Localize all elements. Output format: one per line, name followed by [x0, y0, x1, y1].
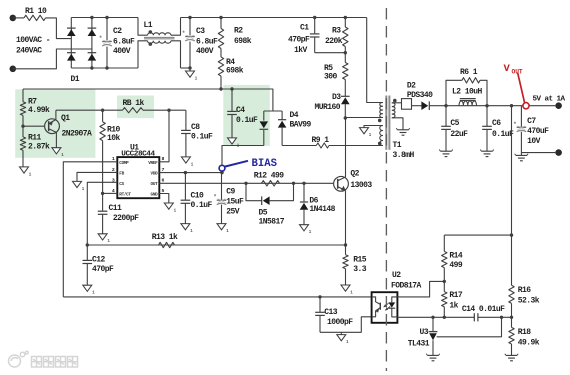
svg-text:22uF: 22uF [450, 130, 468, 139]
junction [344, 16, 347, 19]
optocoupler U2 box [372, 271, 422, 323]
diode D4b [278, 111, 287, 146]
wire FB pin2 to ground [77, 172, 117, 181]
annotation VOUT [504, 63, 530, 109]
junction [219, 16, 222, 19]
diode D1b [67, 53, 76, 61]
svg-text:C1: C1 [300, 23, 309, 32]
label D1 [71, 75, 80, 84]
svg-text:1N4148: 1N4148 [309, 205, 335, 214]
transformer T1 primary winding [380, 103, 383, 118]
svg-text:3.3: 3.3 [353, 265, 367, 274]
svg-text:D3: D3 [332, 93, 341, 102]
wire GND pin5 [159, 194, 169, 204]
svg-text:RT/CT: RT/CT [119, 193, 131, 198]
capacitor C5 [441, 106, 468, 152]
wire CS rail [87, 244, 345, 246]
resistor R5 [324, 53, 348, 97]
svg-text:VREF: VREF [148, 161, 158, 166]
junction [431, 316, 434, 319]
wire primary bottom [345, 117, 383, 119]
capacitor C10 [181, 173, 213, 224]
junction [105, 16, 108, 19]
diode D6 [300, 183, 336, 224]
capacitor C3 [182, 18, 218, 69]
diode D4a [260, 111, 269, 146]
svg-text:D4: D4 [290, 111, 299, 120]
svg-text:L1: L1 [144, 21, 153, 30]
resistor R17 [442, 281, 463, 317]
junction [101, 109, 104, 112]
junction [444, 104, 447, 107]
junction [443, 316, 446, 319]
svg-text:3.8mH: 3.8mH [393, 151, 415, 160]
diode D1c [88, 28, 97, 36]
wire top rail mid [181, 17, 367, 19]
wire [220, 49, 222, 58]
junction [292, 182, 295, 185]
svg-text:R12 499: R12 499 [254, 171, 285, 180]
wire Q1 base [23, 125, 45, 127]
wire D4 bracket [264, 110, 282, 112]
capacitor C12 [83, 245, 115, 285]
junction [302, 182, 305, 185]
junction [188, 16, 191, 19]
svg-text:2.87k: 2.87k [28, 143, 50, 152]
svg-text:V: V [504, 63, 511, 75]
wire feedforward rail [23, 89, 273, 111]
svg-text:10k: 10k [107, 134, 121, 143]
highlight box C4 [223, 85, 269, 146]
svg-text:220k: 220k [325, 37, 343, 46]
ground primary C13 [337, 332, 349, 345]
junction [219, 87, 222, 90]
junction [21, 125, 24, 128]
svg-text:300: 300 [324, 73, 338, 82]
junction [184, 171, 187, 174]
label T1 [393, 141, 415, 160]
svg-text:13003: 13003 [350, 181, 372, 190]
svg-text:C13: C13 [324, 308, 338, 317]
junction [86, 243, 89, 246]
label 100VAC-240VAC [16, 36, 50, 55]
svg-text:1N5817: 1N5817 [259, 217, 285, 226]
junction [90, 16, 93, 19]
resistor RB [123, 99, 145, 113]
svg-text:BAV99: BAV99 [290, 120, 312, 129]
wire secondary bottom [392, 118, 403, 130]
diode D2 [407, 82, 433, 110]
svg-text:*: * [182, 30, 186, 37]
capacitor C11 [98, 193, 139, 233]
svg-text:49.9k: 49.9k [518, 338, 540, 347]
junction [90, 66, 93, 69]
svg-text:D1: D1 [71, 75, 80, 84]
wire COMP pin1 [63, 162, 117, 297]
svg-text:T1: T1 [393, 141, 402, 150]
wire VREF pin8 [159, 110, 169, 162]
inductor L2 [452, 88, 483, 106]
svg-text:10V: 10V [527, 137, 541, 146]
svg-text:FOD817A: FOD817A [391, 282, 422, 291]
svg-text:470pF: 470pF [92, 265, 114, 274]
svg-text:2N2907A: 2N2907A [62, 129, 93, 138]
ground secondary U3 [426, 354, 439, 361]
ground secondary C6 [480, 150, 493, 157]
svg-text:1000pF: 1000pF [327, 318, 353, 327]
svg-text:400V: 400V [196, 47, 214, 56]
capacitor C8 [181, 110, 213, 157]
wire cathode rail [397, 316, 474, 318]
wire top rail left [71, 17, 138, 19]
svg-text:R2: R2 [234, 27, 243, 36]
svg-text:C10: C10 [191, 191, 205, 200]
svg-text:698k: 698k [234, 37, 252, 46]
wire VDD pin7 rail [159, 172, 222, 174]
U2 LED [388, 297, 397, 317]
junction [101, 192, 104, 195]
wire aux bottom [329, 145, 383, 147]
choke L1 phase dots [149, 30, 153, 46]
watermark logo [9, 351, 78, 367]
capacitor C4 [227, 89, 258, 138]
ground primary aux [360, 128, 372, 138]
svg-text:240VAC: 240VAC [16, 46, 42, 55]
terminal AC neutral [10, 66, 17, 73]
ground primary D6 [300, 225, 312, 235]
junction [510, 233, 513, 236]
wire Q1 collector to ground [52, 132, 64, 158]
svg-text:C6: C6 [492, 119, 501, 128]
svg-text:Q1: Q1 [61, 114, 70, 123]
svg-text:L2 10uH: L2 10uH [452, 88, 483, 97]
svg-text:U3: U3 [420, 328, 429, 337]
resistor R18 [509, 317, 540, 355]
svg-text:GND: GND [151, 193, 159, 198]
svg-text:OUT: OUT [151, 182, 159, 187]
svg-text:FB: FB [119, 172, 124, 177]
wire COMP rail [63, 296, 371, 298]
capacitor C7 [513, 106, 549, 153]
svg-text:52.3k: 52.3k [518, 296, 540, 305]
svg-text:0.1uF: 0.1uF [492, 130, 514, 139]
ground primary R11 [20, 167, 32, 177]
U2 light arrows [383, 303, 390, 310]
svg-text:R13 1k: R13 1k [152, 233, 178, 242]
ground secondary C7 [515, 153, 528, 161]
svg-text:C9: C9 [226, 188, 235, 197]
wire 5V sense column [511, 106, 513, 286]
diode D1d [88, 53, 97, 61]
svg-text:C12: C12 [92, 256, 106, 265]
resistor R10 [100, 110, 121, 193]
resistor R7 [20, 89, 50, 126]
junction [105, 66, 108, 69]
terminal return [555, 149, 562, 156]
svg-text:499: 499 [449, 261, 463, 270]
wire return [521, 152, 555, 154]
svg-text:R17: R17 [449, 291, 463, 300]
wire secondary top [392, 102, 402, 104]
transformer T1 core [386, 96, 389, 150]
junction [510, 316, 513, 319]
choke L1 core [144, 37, 175, 38]
svg-text:C7: C7 [527, 117, 536, 126]
ground primary C9 [217, 224, 229, 234]
ground primary FB [73, 181, 85, 191]
capacitor C9 [213, 173, 244, 224]
ground primary C11 [98, 234, 110, 244]
junction [485, 104, 488, 107]
T1 secondary phase dot [393, 99, 397, 103]
capacitor C13 [315, 297, 353, 332]
svg-text:5: 5 [162, 188, 165, 194]
ground secondary winding [396, 128, 409, 135]
shunt regulator U3 TL431 [408, 317, 438, 355]
wire primary top [367, 18, 383, 103]
resistor R16 [509, 285, 540, 317]
wire [13, 17, 24, 19]
wire [143, 109, 186, 111]
junction [220, 171, 223, 174]
svg-text:1k: 1k [449, 301, 458, 310]
svg-text:C5: C5 [450, 119, 459, 128]
resistor R14 [442, 235, 463, 281]
svg-text:D2: D2 [407, 82, 416, 91]
wire RB rail [56, 109, 123, 111]
ground primary C8 [181, 157, 193, 167]
svg-text:470uF: 470uF [527, 127, 549, 136]
bridge D1 right column wire [91, 18, 93, 69]
resistor R4 [218, 57, 243, 76]
label L1 [144, 21, 153, 30]
U1 pin names [119, 161, 158, 198]
junction [244, 182, 247, 185]
T1 primary phase dot [378, 119, 382, 123]
wire aux top to ground [364, 126, 383, 128]
ground secondary R18 [505, 354, 518, 361]
svg-text:R14: R14 [449, 251, 463, 260]
label D4 [290, 111, 312, 130]
capacitor C14 [462, 305, 505, 321]
junction [344, 51, 347, 54]
wire Q2 collector [345, 118, 347, 177]
wire [478, 316, 512, 318]
resistor R2 [218, 18, 251, 49]
svg-text:R18: R18 [518, 328, 532, 337]
choke L1 top winding [138, 18, 181, 36]
svg-text:D5: D5 [259, 208, 268, 217]
diode D5 loop [246, 183, 294, 200]
junction [188, 66, 191, 69]
wire OUT rail [159, 182, 333, 184]
svg-text:C4: C4 [236, 106, 245, 115]
junction [344, 116, 347, 119]
capacitor C6 [482, 106, 514, 152]
highlight box slope-comp network [15, 89, 95, 158]
U1 pin numbers [112, 156, 165, 194]
transistor Q2 [334, 170, 373, 192]
svg-text:R16: R16 [518, 286, 532, 295]
U2 phototransistor [372, 297, 381, 317]
resistor R12 [254, 171, 285, 186]
ground primary U1 [164, 203, 176, 213]
svg-text:470pF: 470pF [288, 36, 310, 45]
label 5V at 1A [533, 95, 566, 103]
capacitor C1 [288, 18, 320, 56]
ground primary below C3 [186, 68, 198, 81]
svg-text:COMP: COMP [119, 161, 129, 166]
svg-text:R1 10: R1 10 [25, 7, 47, 16]
svg-text:5V at 1A: 5V at 1A [533, 95, 566, 103]
IC U1 UCC28C44 box [117, 144, 159, 199]
svg-text:RB 1k: RB 1k [123, 99, 145, 108]
svg-text:1kV: 1kV [294, 46, 308, 55]
svg-text:R6 1: R6 1 [460, 68, 478, 77]
svg-text:R3: R3 [332, 27, 341, 36]
svg-text:C3: C3 [196, 27, 205, 36]
junction [500, 316, 503, 319]
resistor R13 [152, 233, 178, 248]
svg-text:*: * [99, 35, 103, 42]
transformer T1 secondary winding [392, 103, 395, 118]
svg-text:CS: CS [119, 182, 124, 187]
terminal VOUT [555, 102, 562, 109]
wire opto emitter return [320, 317, 372, 333]
wire R14 top [444, 234, 511, 236]
wire Q2 emitter [345, 190, 347, 245]
svg-text:PDS340: PDS340 [407, 91, 433, 100]
resistor R3 [325, 18, 348, 53]
transformer T1 aux winding [380, 126, 383, 146]
svg-text:698k: 698k [226, 67, 244, 76]
T1 aux phase dot [378, 142, 382, 146]
svg-text:0.1uF: 0.1uF [236, 116, 258, 125]
resistor R1 [24, 7, 47, 21]
svg-text:*: * [213, 194, 217, 201]
svg-text:UCC28C44: UCC28C44 [121, 151, 155, 159]
resistor R11 [20, 126, 50, 167]
wire RT/CT pin4 [103, 192, 118, 194]
svg-text:R11: R11 [28, 134, 42, 143]
resistor R6 [446, 68, 487, 106]
ground primary R15 [341, 285, 353, 295]
wire [46, 18, 71, 39]
svg-text:MUR160: MUR160 [315, 103, 341, 112]
svg-text:15uF: 15uF [226, 198, 244, 207]
ground primary C10 [181, 224, 193, 234]
highlight box RB [117, 96, 154, 119]
svg-text:OUT: OUT [512, 68, 523, 75]
svg-text:6.8uF: 6.8uF [113, 37, 135, 46]
svg-text:0.1uF: 0.1uF [191, 201, 213, 210]
terminal AC line [10, 15, 17, 22]
diode D3 [315, 93, 350, 118]
svg-text:6.8uF: 6.8uF [196, 37, 218, 46]
wire [220, 76, 222, 89]
svg-text:TL431: TL431 [408, 340, 430, 349]
svg-text:0.1uF: 0.1uF [191, 133, 213, 142]
wire [412, 105, 422, 107]
ground primary C4 [228, 138, 240, 148]
svg-text:C2: C2 [113, 27, 122, 36]
junction [510, 104, 513, 107]
svg-text:C14 0.01uF: C14 0.01uF [462, 305, 505, 314]
junction [167, 109, 170, 112]
wire [315, 52, 346, 54]
svg-text:R15: R15 [353, 256, 367, 265]
wire [13, 49, 92, 69]
svg-text:VDD: VDD [151, 172, 159, 177]
svg-text:6: 6 [162, 177, 165, 183]
transistor Q1 [45, 114, 92, 138]
svg-text:2200pF: 2200pF [113, 214, 139, 223]
wire bottom rail left [71, 67, 138, 69]
choke L1 bottom winding [138, 41, 181, 68]
wire opto anode [397, 281, 444, 297]
svg-text:400V: 400V [113, 47, 131, 56]
svg-text:4.99k: 4.99k [28, 106, 50, 115]
snubber bead box [402, 99, 412, 110]
svg-text:C11: C11 [109, 204, 123, 213]
wire output rail [429, 105, 555, 107]
wire CS pin3 [87, 182, 117, 245]
wire BIAS [222, 146, 264, 173]
svg-text:25V: 25V [226, 207, 240, 216]
junction [313, 16, 316, 19]
ground secondary C5 [439, 150, 452, 157]
resistor R9 [282, 136, 329, 148]
svg-text:C8: C8 [191, 123, 200, 132]
bridge D1 left column wire [70, 18, 72, 69]
svg-text:*: * [513, 121, 517, 128]
wire bottom rail right [181, 67, 191, 69]
svg-text:U2: U2 [392, 271, 401, 280]
svg-text:BIAS: BIAS [252, 158, 278, 170]
junction [230, 87, 233, 90]
wire U3 ref [437, 317, 502, 337]
svg-text:Q2: Q2 [350, 170, 359, 179]
resistor R15 [343, 245, 367, 285]
junction [344, 243, 347, 246]
svg-text:100VAC -: 100VAC - [16, 36, 50, 45]
wire Q1 emitter [55, 110, 57, 119]
annotation BIAS [219, 158, 277, 171]
isolation boundary [385, 8, 387, 371]
capacitor C2 [99, 18, 135, 69]
ground primary C12 [83, 285, 95, 295]
diode D5 [259, 196, 285, 226]
diode D1a [67, 28, 76, 36]
svg-text:R9 1: R9 1 [312, 136, 330, 145]
svg-text:7: 7 [162, 167, 165, 173]
junction [318, 295, 321, 298]
junction [443, 280, 446, 283]
